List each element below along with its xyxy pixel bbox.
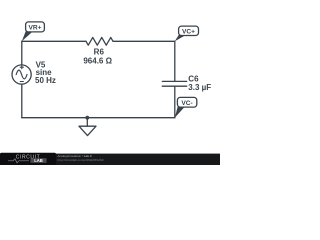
resistor R6 <box>86 37 113 45</box>
node flag VC+ <box>175 26 199 41</box>
node flag VR+ <box>22 22 45 41</box>
svg-text:R6: R6 <box>94 47 105 56</box>
CircuitLab logo <box>0 153 56 165</box>
svg-text:50 Hz: 50 Hz <box>35 76 56 85</box>
svg-text:VC-: VC- <box>181 100 192 107</box>
voltage source V5 circle <box>12 65 31 84</box>
minus sign of V5 <box>20 81 23 83</box>
svg-text:LAB: LAB <box>34 158 43 163</box>
wire top-right horizontal segment <box>113 40 175 42</box>
capacitor C6 <box>162 81 186 86</box>
node flag VC- <box>175 97 197 117</box>
ground symbol <box>79 126 96 135</box>
ground stub wire <box>86 118 88 127</box>
wire top-left horizontal segment <box>22 40 86 42</box>
sine symbol inside V5 <box>16 70 27 79</box>
svg-text:964.6 Ω: 964.6 Ω <box>83 57 112 66</box>
wire right vertical to capacitor <box>174 41 176 81</box>
wire left vertical top (corner to source) <box>21 41 23 65</box>
plus sign of V5 <box>20 66 23 69</box>
svg-text:VC+: VC+ <box>182 28 195 35</box>
junction node at ground <box>85 116 89 120</box>
wire bottom horizontal <box>22 117 175 119</box>
wire left vertical bottom (source to bottom wire) <box>21 84 23 118</box>
svg-text:http://circuitlab.com/c/29kb65: http://circuitlab.com/c/29kb655262/ <box>58 158 105 162</box>
wire capacitor to bottom <box>174 86 176 118</box>
footer watermark bar <box>0 154 220 165</box>
svg-text:VR+: VR+ <box>28 25 41 32</box>
svg-text:3.3 µF: 3.3 µF <box>188 83 211 92</box>
